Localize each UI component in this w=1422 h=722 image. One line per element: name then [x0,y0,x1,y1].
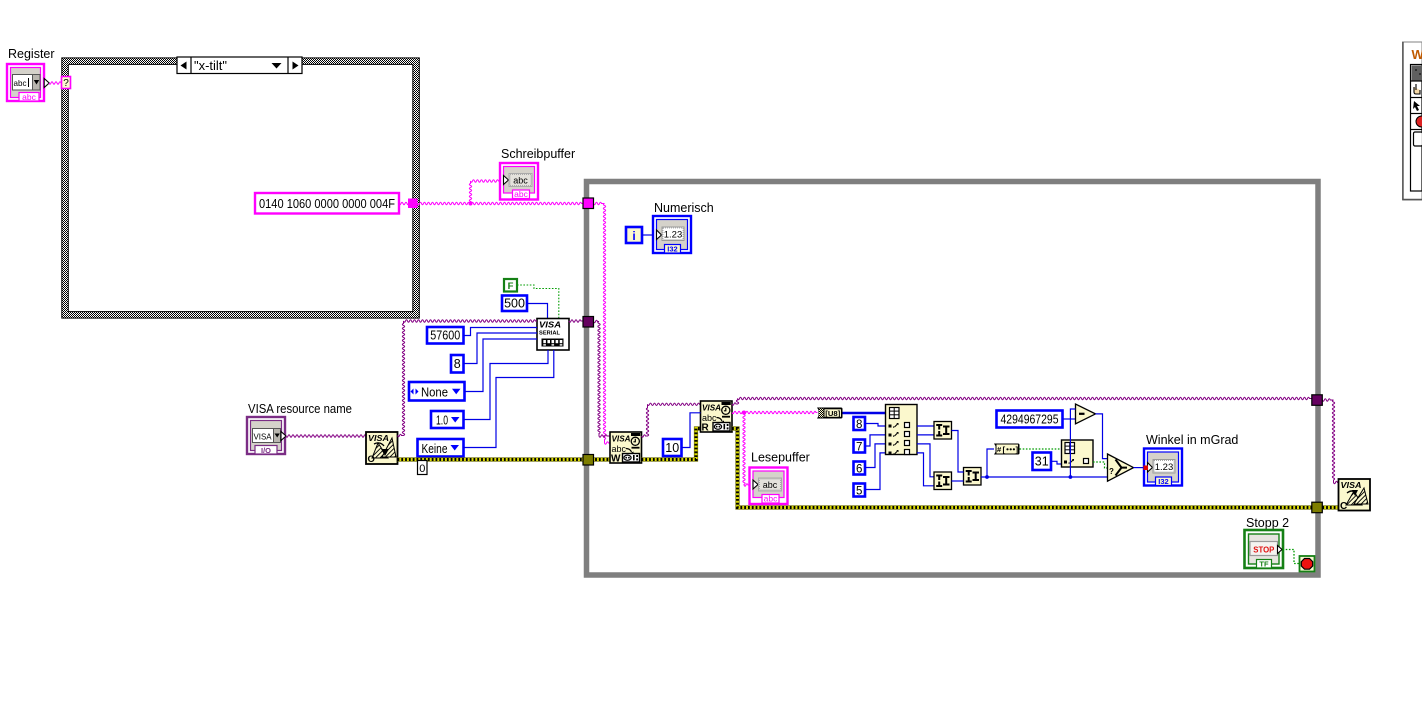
svg-text:[: [ [1003,445,1006,454]
wire: None to serial [465,339,538,392]
svg-text:I/O: I/O [261,446,271,455]
wire: 7 to Index Array [865,435,886,446]
svg-text:abc: abc [702,413,717,423]
enum constant Keine [418,439,464,457]
wire: join1 to join3 [952,431,964,473]
Join Numbers icon 2 [934,472,952,490]
wire: branch to Lesepuffer [743,413,750,487]
svg-text:0140 1060 0000 0000 004F: 0140 1060 0000 0000 004F [259,197,395,211]
wire: branch to Number To Boolean Array [987,449,994,477]
loop tunnel (visa in) [583,317,594,328]
loop tunnel (error in) [583,455,594,466]
wire: 8 to Index Array [865,424,886,427]
numeric constant 500 [502,296,527,312]
junction at Schreibpuffer branch [469,202,473,206]
wire: byte array to Index Array [843,412,886,414]
string indicator Lesepuffer [750,451,810,505]
junction dot 2 [1069,475,1073,479]
VISA Close icon [1339,479,1371,512]
svg-text:4294967295: 4294967295 [1001,412,1059,426]
wire: 10 to VISA Read [682,413,701,448]
svg-text:1.23: 1.23 [664,230,683,241]
VISA configure serial port icon [537,319,569,351]
loop condition terminal (stop) [1300,556,1315,572]
svg-text:VISA: VISA [1341,480,1362,490]
svg-text:abc: abc [764,494,778,504]
wire: joined value main [981,476,1108,478]
numeric constant 57600 [427,327,464,344]
numeric indicator Numerisch [653,201,714,254]
svg-text:abc: abc [612,444,627,454]
numeric constant 31 [1033,453,1052,471]
svg-text:VISA: VISA [539,320,561,330]
numeric constant 8 (index) [854,417,866,431]
wire: 1.0 to serial [464,350,549,420]
wire: Select out to indicator [1134,467,1145,469]
svg-text:VISA: VISA [254,432,272,442]
svg-text:0: 0 [419,463,425,475]
svg-text:57600: 57600 [430,329,460,343]
VISA Open icon [366,432,398,465]
Index Array icon (4 indices) [886,405,918,455]
Select function [1108,454,1134,481]
svg-text:500: 500 [504,297,525,311]
svg-text:Winkel in mGrad: Winkel in mGrad [1146,433,1238,447]
string indicator Schreibpuffer [500,147,575,200]
case structure frame [62,58,420,318]
wire: VISA resource to VISA Open [286,435,366,437]
wire: 57600 to serial [464,328,538,336]
wire: 5 to Index Array [865,453,886,490]
iteration terminal i [626,227,642,243]
wire: 500 to VISA serial [527,304,548,319]
svg-text:[U8]: [U8] [825,411,840,418]
wire: VISA Read buffer out [732,411,818,413]
Join Numbers icon 3 [964,468,982,486]
error wire: VISA Read to loop tunnel [732,429,1312,508]
wire: Keine to serial [464,350,554,448]
svg-text:Schreibpuffer: Schreibpuffer [501,147,575,161]
wire: string tunnel to VISA Write [594,202,611,444]
svg-text:F: F [508,281,514,292]
svg-text:VISA: VISA [612,434,631,444]
wire: 31 to Index Array 2 [1051,461,1062,464]
numeric constant 6 (index) [854,462,866,476]
while loop frame [587,182,1319,576]
wire: VISA Read to loop tunnel (visa) [732,397,1312,405]
loop tunnel (string in) [583,198,594,209]
numeric constant 10 [663,439,682,456]
svg-text:5: 5 [856,485,862,497]
svg-text:Lesepuffer: Lesepuffer [751,451,810,465]
junction at Lesepuffer branch [742,411,746,415]
svg-text:O: O [368,454,375,465]
wire: Register to case tunnel [49,82,62,84]
wire: case tunnel to while loop [418,202,585,204]
wire: 6 to Index Array [865,444,886,468]
wire: index out 2 [917,434,934,436]
numeric constant 0 [418,461,428,476]
loop tunnel (error out) [1312,502,1323,513]
svg-text:VISA resource name: VISA resource name [248,402,352,416]
case selector label "x-tilt" [177,57,302,74]
wire: VISA Write to VISA Read (visa) [642,403,701,437]
Number To Boolean Array icon [994,444,1020,455]
junction dot 1 [985,475,989,479]
svg-text:8: 8 [454,357,461,371]
svg-text:I32: I32 [667,245,677,254]
subtract function [1076,404,1096,424]
svg-text:C: C [1340,501,1347,512]
svg-text:abc: abc [22,92,36,102]
svg-text:W: W [1412,47,1422,62]
numeric indicator Winkel in mGrad [1144,433,1238,486]
coercion dot [1144,466,1149,471]
svg-text:abc: abc [513,176,528,186]
wire: F to VISA serial (boolean) [517,285,559,319]
wire: index out 4 [917,453,934,486]
svg-text:Register: Register [8,47,55,61]
svg-text:W: W [611,454,621,465]
wire: loop tunnel to VISA Close (visa) [1322,399,1338,484]
string control Register [7,47,55,102]
VISA Read icon [701,401,733,434]
wire: i to Numerisch [642,234,653,236]
tunnel on case right border (magenta) [408,199,418,209]
boolean constant F [504,279,517,292]
tunnel ? on case left border [62,77,71,90]
numeric constant 7 (index) [854,440,866,454]
svg-text:31: 31 [1035,455,1049,469]
svg-text:abc: abc [763,480,778,490]
svg-text:VISA: VISA [702,403,721,413]
error wire: VISA Open to VISA Write [398,457,611,461]
ring constant 1.0 [431,411,464,428]
svg-text:Numerisch: Numerisch [654,201,714,215]
wire: VISA Open to serial cfg [398,320,538,437]
wire: serial cfg to loop tunnel [569,320,584,322]
svg-text:10: 10 [665,441,679,455]
wire: boolean array to Index Array 2 [1020,448,1062,450]
svg-text:TF: TF [1259,560,1269,569]
numeric constant 4294967295 [997,411,1063,428]
enum constant None [409,382,465,401]
VISA Write icon [610,432,642,465]
svg-text:1.0: 1.0 [436,414,448,428]
string to byte array icon [817,408,843,419]
numeric constant 5 (index) [854,484,866,498]
VISA resource name control [247,402,352,455]
svg-text:6: 6 [856,463,862,475]
loop tunnel (visa out) [1312,395,1323,406]
Index Array icon 2 (bit 31) [1062,440,1094,467]
string constant 0140 1060 0000 0000 004F [255,193,399,214]
svg-text:7: 7 [856,441,862,453]
error wire: VISA Write to VISA Read [642,429,701,460]
svg-text:abc: abc [14,78,28,88]
wire: index out 3 [917,444,934,477]
numeric constant 8 [451,355,464,373]
svg-text:Stopp 2: Stopp 2 [1246,516,1289,530]
wire: join2 to join3 [952,480,964,482]
svg-text:?: ? [1109,467,1114,476]
svg-text:i: i [632,229,635,243]
svg-text:Keine: Keine [422,442,448,456]
svg-text:abc: abc [514,189,528,199]
svg-text:I32: I32 [1158,477,1168,486]
wire: branch to Schreibpuffer [469,180,500,204]
svg-text:]: ] [1016,445,1019,454]
wire: 8 to serial [464,333,538,364]
wire: bit31 boolean to Select [1093,462,1108,468]
wire: string constant to case tunnel [399,202,411,204]
boolean control Stopp 2 [1245,516,1290,569]
error wire: loop tunnel to VISA Close [1322,505,1339,509]
svg-text:R: R [702,423,710,434]
svg-text:VISA: VISA [368,433,389,443]
Join Numbers icon 1 [934,422,952,440]
svg-text:SERIAL: SERIAL [539,331,561,337]
wire: Stopp 2 to loop condition [1283,550,1300,564]
wire: index out 1 [917,425,934,427]
svg-text:8: 8 [856,419,862,431]
tools palette window (partial) [1403,42,1422,200]
svg-text:None: None [421,386,448,400]
wire: subtract out to Select [1096,414,1108,459]
wire: 4294967295 to subtract [1063,418,1076,420]
wire: visa tunnel to VISA Write [594,320,611,437]
svg-text:"x-tilt": "x-tilt" [194,59,227,73]
svg-text:?: ? [63,78,69,89]
wire: crossing vertical to subtract [1070,409,1075,477]
svg-text:STOP: STOP [1253,546,1275,555]
svg-text:1.23: 1.23 [1155,462,1174,473]
